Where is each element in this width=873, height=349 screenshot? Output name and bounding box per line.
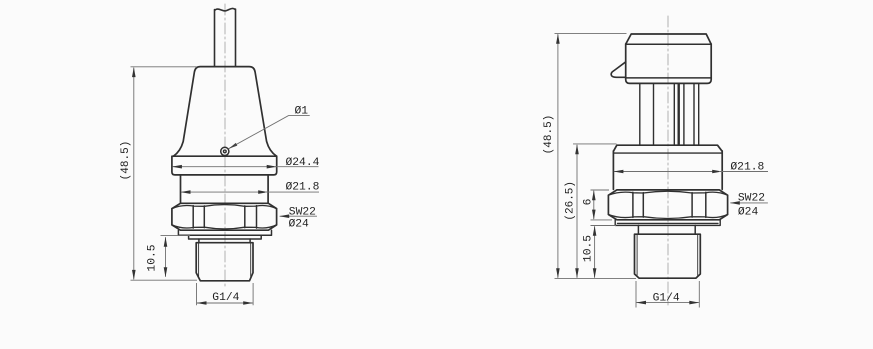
upper body O21.8: [613, 145, 722, 189]
svg-text:(48.5): (48.5): [120, 141, 132, 181]
ext 26.5 top: [573, 143, 617, 145]
hex nut SW22 right: [608, 190, 727, 220]
ext 6 top/bottom: [591, 190, 613, 220]
dim O24.4: [172, 166, 276, 168]
svg-text:Ø1: Ø1: [295, 105, 309, 117]
dim line 10.5 right: [594, 226, 596, 277]
relief neck right: [638, 225, 695, 234]
svg-text:Ø21.8: Ø21.8: [286, 182, 320, 194]
leader SW22/O24 right: [730, 202, 768, 204]
dim line 10.5: [165, 237, 167, 276]
washer 2: [189, 235, 262, 239]
hex nut SW22: [172, 203, 277, 230]
svg-text:SW22: SW22: [289, 206, 316, 218]
thread stub G1/4: [196, 243, 253, 281]
svg-text:G1/4: G1/4: [212, 292, 239, 304]
ext 48.5 top right: [555, 32, 627, 34]
cable: [215, 8, 236, 66]
ribbed neck: [640, 84, 699, 145]
svg-text:G1/4: G1/4: [653, 292, 680, 304]
svg-text:(26.5): (26.5): [564, 181, 576, 221]
dim O21.8: [181, 191, 268, 193]
bell housing: [173, 67, 276, 157]
ext bottom right: [555, 277, 637, 279]
rib dark line: [678, 84, 680, 145]
dim O21.8 right: [614, 171, 722, 173]
dim G1/4 right: [636, 281, 699, 308]
cylinder O21.8: [181, 175, 269, 203]
svg-text:Ø24: Ø24: [738, 206, 759, 218]
centerline right view: [667, 16, 669, 305]
dim line (48.5): [133, 68, 135, 280]
washer right: [615, 220, 720, 226]
svg-text:6: 6: [582, 198, 594, 205]
svg-text:Ø24.4: Ø24.4: [286, 157, 320, 169]
dim line (48.5) right: [557, 34, 559, 278]
leader SW22/O24: [280, 215, 317, 217]
right view dimensions: [555, 33, 769, 307]
svg-text:10.5: 10.5: [146, 244, 158, 271]
ext line 48.5 top: [131, 66, 198, 68]
relief neck: [199, 239, 250, 243]
dim line 6: [593, 191, 595, 219]
leader O1: [229, 116, 310, 149]
ext line 10.5 top: [161, 234, 191, 236]
ext line 48.5/G bottom: [131, 279, 198, 281]
flange O24.4: [172, 156, 277, 175]
dim line (26.5): [576, 145, 578, 278]
thread stub G1/4 right: [635, 234, 701, 278]
ext 10.5 top right: [591, 225, 617, 227]
washer 1: [178, 230, 271, 235]
connector cap: [626, 34, 712, 83]
svg-text:Ø21.8: Ø21.8: [730, 161, 764, 173]
svg-text:(48.5): (48.5): [543, 115, 555, 155]
left view dimensions: [131, 67, 320, 305]
cable gland tab: [611, 62, 626, 78]
dim G1/4: [197, 283, 254, 305]
svg-text:Ø24: Ø24: [289, 218, 310, 230]
svg-text:10.5: 10.5: [583, 235, 595, 262]
svg-text:SW22: SW22: [738, 192, 765, 204]
vent hole: [221, 147, 229, 155]
centerline left view: [224, 4, 226, 288]
